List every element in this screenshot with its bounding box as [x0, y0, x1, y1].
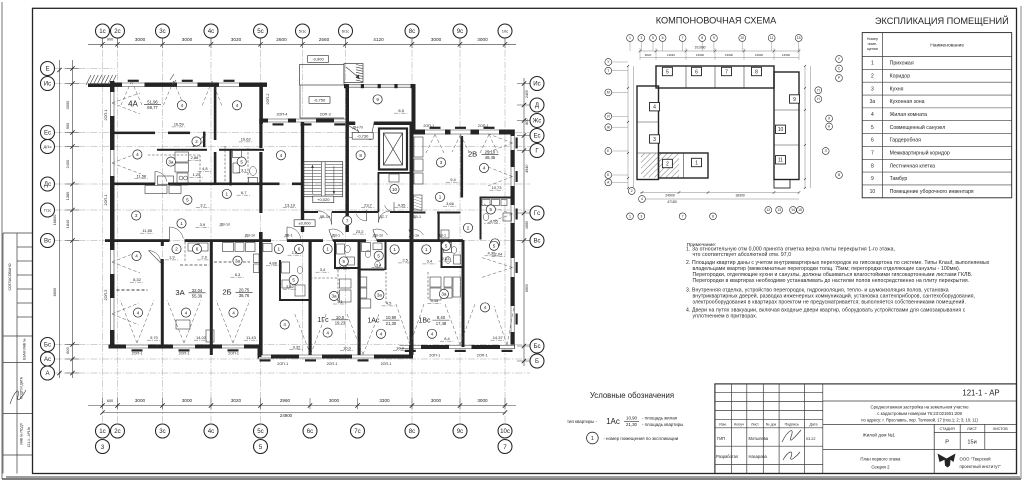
svg-text:3,9: 3,9	[200, 222, 206, 227]
svg-text:21,30: 21,30	[386, 321, 397, 326]
dashed partition rooms 4/4 left	[117, 289, 148, 291]
svg-text:6/1с: 6/1с	[342, 28, 350, 33]
svg-text:10,90: 10,90	[626, 416, 638, 421]
svg-text:800: 800	[525, 119, 529, 125]
svg-text:2,88: 2,88	[191, 155, 200, 160]
corridor bottom wall y240	[105, 239, 170, 242]
dashed partition 3А hall	[180, 264, 209, 266]
svg-text:4: 4	[431, 331, 434, 336]
svg-text:3000: 3000	[431, 398, 442, 403]
svg-text:10: 10	[870, 189, 876, 195]
tambour bottom wall y123	[349, 122, 412, 126]
svg-text:1: 1	[278, 247, 281, 252]
key plan axis bubbles right	[836, 56, 843, 63]
bottom axis bubbles row 2	[96, 440, 110, 454]
svg-text:Перегородки, отделяющие кухни: Перегородки, отделяющие кухни и санузлы,…	[693, 271, 973, 278]
door openings: arcs	[170, 227, 184, 239]
svg-text:3а: 3а	[377, 293, 383, 298]
svg-text:Секция 2: Секция 2	[871, 464, 890, 469]
kitchen/bath cluster walls 4А	[157, 149, 207, 151]
svg-text:1: 1	[326, 247, 329, 252]
legend room number	[587, 432, 599, 444]
svg-text:8с: 8с	[409, 28, 415, 35]
svg-text:10: 10	[392, 187, 398, 192]
svg-text:16,59: 16,59	[174, 122, 185, 127]
svg-text:8: 8	[755, 69, 758, 75]
svg-text:№ док: № док	[766, 422, 777, 426]
svg-text:КОМПОНОВОЧНАЯ СХЕМА: КОМПОНОВОЧНАЯ СХЕМА	[656, 16, 777, 26]
svg-text:5: 5	[240, 159, 243, 164]
svg-text:Т: Т	[607, 69, 609, 73]
exterior wall: stairwell top y120	[259, 119, 347, 123]
svg-text:Подпись: Подпись	[785, 422, 799, 426]
svg-text:16300: 16300	[725, 53, 733, 57]
svg-text:5: 5	[490, 207, 493, 212]
svg-text:3,66: 3,66	[446, 201, 455, 206]
svg-text:21,30: 21,30	[626, 422, 638, 427]
svg-text:16400: 16400	[782, 53, 790, 57]
svg-text:20,75: 20,75	[239, 287, 250, 292]
svg-text:2ОП-1: 2ОП-1	[327, 362, 338, 366]
svg-text:6,3: 6,3	[235, 272, 241, 277]
svg-text:900: 900	[107, 38, 113, 42]
svg-text:1,2: 1,2	[292, 250, 298, 255]
svg-text:55,39: 55,39	[192, 294, 203, 299]
svg-text:4,35: 4,35	[398, 202, 407, 207]
svg-text:3: 3	[640, 215, 642, 219]
2Б kitchen fixtures	[223, 243, 234, 252]
svg-text:ООО "Тверской: ООО "Тверской	[960, 456, 992, 461]
svg-text:10,9: 10,9	[396, 346, 405, 351]
svg-text:3а: 3а	[168, 159, 174, 164]
svg-text:8: 8	[359, 153, 362, 158]
svg-text:4: 4	[484, 305, 487, 310]
svg-text:1660: 1660	[525, 221, 529, 229]
svg-text:3: 3	[871, 86, 874, 92]
svg-text:3: 3	[440, 160, 443, 165]
svg-text:16800: 16800	[52, 214, 57, 226]
svg-text:14,37: 14,37	[493, 335, 504, 340]
svg-text:4: 4	[326, 330, 329, 335]
room number circles	[177, 101, 186, 110]
svg-text:2: 2	[666, 161, 669, 167]
svg-text:2ОП-3: 2ОП-3	[320, 113, 331, 117]
svg-text:4: 4	[232, 310, 235, 315]
svg-text:4: 4	[280, 153, 283, 158]
svg-text:7с: 7с	[354, 428, 360, 435]
svg-text:3а: 3а	[331, 294, 337, 299]
svg-text:2400: 2400	[525, 90, 529, 98]
svg-text:1Вс: 1Вс	[418, 317, 431, 324]
key plan dimension lines	[640, 50, 799, 52]
1Вс bathroom (right side)	[441, 242, 443, 268]
svg-text:4: 4	[871, 112, 874, 118]
svg-text:ДВ-1: ДВ-1	[284, 234, 292, 238]
svg-text:4с: 4с	[208, 428, 214, 435]
svg-text:11: 11	[778, 158, 783, 164]
svg-text:6,7: 6,7	[241, 190, 247, 195]
svg-text:ДВ-1л: ДВ-1л	[220, 223, 230, 227]
svg-text:2ОП-1: 2ОП-1	[277, 362, 288, 366]
svg-text:2ОП-1: 2ОП-1	[429, 354, 440, 358]
svg-text:1380: 1380	[65, 191, 70, 200]
1Вс kitchen fixtures	[430, 277, 441, 287]
top dimension chain	[88, 43, 516, 45]
1Гс bathroom top-right	[334, 242, 336, 269]
title block frame	[715, 384, 1017, 474]
2В partition rooms 3/4	[461, 136, 464, 198]
svg-text:с кадастровым номером 76:23:02: с кадастровым номером 76:23:021501:208	[877, 411, 962, 416]
svg-text:3а: 3а	[235, 258, 241, 263]
svg-text:5: 5	[666, 69, 669, 75]
svg-text:24900: 24900	[280, 413, 293, 418]
svg-text:32,04: 32,04	[192, 288, 203, 293]
svg-text:600: 600	[65, 346, 70, 353]
svg-text:3020: 3020	[231, 37, 242, 42]
svg-text:1: 1	[425, 247, 428, 252]
svg-text:8,40: 8,40	[437, 315, 446, 320]
svg-text:2ОП-1: 2ОП-1	[381, 362, 392, 366]
svg-text:69,77: 69,77	[147, 105, 158, 110]
svg-text:ДВ-1: ДВ-1	[332, 234, 340, 238]
svg-text:СОГЛАСОВАНО: СОГЛАСОВАНО	[8, 263, 12, 290]
svg-text:Условные обозначения: Условные обозначения	[590, 391, 674, 400]
svg-text:6с: 6с	[307, 428, 313, 435]
svg-text:ГИП: ГИП	[717, 436, 725, 441]
top axis bubbles	[96, 24, 110, 38]
svg-text:2600: 2600	[276, 37, 287, 42]
svg-text:5: 5	[377, 253, 380, 258]
2В pantry hatch	[414, 196, 423, 199]
svg-text:3000: 3000	[135, 37, 146, 42]
signatures	[782, 430, 801, 442]
svg-text:8: 8	[712, 215, 714, 219]
svg-text:Кухонная зона: Кухонная зона	[890, 99, 925, 105]
4А vertical partition x215	[214, 84, 217, 140]
svg-text:Ис: Ис	[44, 81, 51, 88]
svg-text:16300: 16300	[755, 53, 763, 57]
svg-text:5с: 5с	[257, 428, 263, 435]
svg-text:18300: 18300	[735, 194, 745, 198]
interior bearing wall axis 6с	[309, 240, 312, 355]
svg-text:Помещение уборочного инвентаря: Помещение уборочного инвентаря	[890, 189, 974, 195]
unit 5с-6с bathroom (right side)	[279, 260, 281, 301]
svg-text:3а: 3а	[441, 292, 447, 297]
svg-text:3,95: 3,95	[490, 219, 499, 224]
svg-text:15и: 15и	[967, 440, 976, 446]
svg-text:25,10: 25,10	[485, 149, 496, 154]
svg-text:3,7: 3,7	[200, 203, 206, 208]
svg-text:10,0: 10,0	[343, 345, 352, 350]
svg-text:проектный институт": проектный институт"	[960, 464, 1002, 469]
svg-text:Бс: Бс	[44, 342, 51, 349]
short wall below h1	[203, 132, 205, 148]
key plan building outline	[656, 66, 774, 88]
svg-text:11,85: 11,85	[142, 228, 152, 233]
svg-text:-0,730: -0,730	[357, 133, 369, 138]
svg-text:23,7: 23,7	[364, 202, 373, 207]
svg-text:Гс: Гс	[534, 210, 540, 217]
svg-text:38,76: 38,76	[239, 293, 250, 298]
svg-text:Лист: Лист	[751, 422, 759, 426]
svg-text:8,4: 8,4	[444, 336, 450, 341]
notch wall continuation x259	[259, 123, 262, 149]
svg-text:Ас: Ас	[44, 356, 51, 363]
svg-text:7: 7	[725, 69, 728, 75]
svg-text:12: 12	[766, 208, 770, 212]
svg-text:ИНВ № ПОДЛ: ИНВ № ПОДЛ	[20, 423, 24, 445]
svg-text:внутриквартирных дверей, разво: внутриквартирных дверей, разводка инжене…	[693, 293, 976, 300]
svg-text:7: 7	[871, 151, 874, 157]
svg-text:Ис: Ис	[533, 81, 540, 88]
svg-text:Разработал: Разработал	[716, 454, 739, 459]
svg-text:3000: 3000	[182, 37, 193, 42]
svg-text:3,1: 3,1	[337, 299, 343, 304]
title block left grid	[731, 384, 733, 474]
svg-text:47180: 47180	[667, 200, 677, 204]
interior bearing wall axis 5с	[259, 232, 263, 355]
svg-text:6: 6	[871, 138, 874, 144]
svg-text:19,23: 19,23	[335, 321, 346, 326]
exterior wall: bottom left section	[109, 345, 262, 349]
svg-text:6: 6	[695, 69, 698, 75]
svg-text:4,88: 4,88	[269, 261, 278, 266]
svg-text:3: 3	[101, 444, 105, 451]
svg-text:К: К	[828, 125, 830, 129]
svg-text:2ОП-4: 2ОП-4	[276, 113, 287, 117]
svg-text:Жилая комната: Жилая комната	[890, 112, 928, 118]
svg-text:Дата: Дата	[810, 422, 818, 426]
3А fixtures	[188, 243, 198, 251]
svg-text:9: 9	[713, 36, 715, 40]
svg-text:51,96: 51,96	[147, 99, 158, 104]
svg-text:3А: 3А	[175, 288, 185, 297]
svg-text:1Гс: 1Гс	[317, 317, 329, 324]
svg-text:ДН-7л: ДН-7л	[353, 126, 364, 130]
svg-text:9: 9	[793, 97, 796, 103]
svg-text:ЛИСТОВ: ЛИСТОВ	[993, 427, 1009, 431]
svg-text:1: 1	[629, 36, 631, 40]
interior bearing wall axis 4с	[210, 240, 213, 355]
svg-text:5: 5	[259, 444, 263, 451]
svg-text:ЛИСТ: ЛИСТ	[967, 427, 978, 431]
svg-text:2ОП-2: 2ОП-2	[266, 94, 270, 105]
svg-text:3000: 3000	[477, 398, 488, 403]
svg-text:Коридор: Коридор	[890, 73, 911, 79]
svg-text:5: 5	[871, 125, 874, 131]
svg-text:ЭКСПЛИКАЦИЯ ПОМЕЩЕНИЙ: ЭКСПЛИКАЦИЯ ПОМЕЩЕНИЙ	[875, 15, 1009, 26]
left dimension chain	[72, 60, 74, 378]
svg-text:5: 5	[292, 278, 295, 283]
dashed closet line near 10,62	[247, 148, 249, 182]
svg-text:- площадь квартиры: - площадь квартиры	[642, 422, 683, 427]
svg-text:2,73: 2,73	[339, 265, 348, 270]
svg-text:11: 11	[770, 36, 774, 40]
svg-text:2ОП-1: 2ОП-1	[477, 354, 488, 358]
svg-text:Среднеэтажная застройка на зем: Среднеэтажная застройка на земельном уча…	[871, 405, 970, 410]
svg-text:Бс: Бс	[533, 343, 540, 350]
svg-text:Колуч: Колуч	[734, 422, 744, 426]
explication table	[862, 33, 1012, 198]
svg-text:1: 1	[591, 436, 594, 442]
dashed window diagonals	[120, 300, 137, 343]
svg-text:2с: 2с	[114, 28, 120, 35]
svg-text:10,0: 10,0	[336, 315, 345, 320]
stairwell middle wall axis 6/1с	[346, 125, 349, 232]
svg-text:Лестничная клетка: Лестничная клетка	[890, 163, 936, 169]
svg-text:ДВ-1п: ДВ-1п	[245, 234, 255, 238]
svg-text:Мотылева: Мотылева	[749, 436, 769, 441]
svg-text:1: 1	[629, 215, 631, 219]
svg-text:5: 5	[186, 197, 189, 202]
exterior wall: 2В top y130	[412, 130, 515, 135]
tambour top wall: glazed front with piers	[344, 84, 414, 86]
svg-text:ВЗАМ ИНВ №: ВЗАМ ИНВ №	[23, 338, 27, 360]
key plan axis bubbles bottom	[628, 188, 635, 195]
svg-text:4А: 4А	[128, 100, 138, 109]
svg-text:ДВ-1н: ДВ-1н	[409, 234, 419, 238]
svg-text:Г/1с: Г/1с	[44, 207, 51, 212]
svg-text:Назарова: Назарова	[749, 454, 768, 459]
svg-text:3000: 3000	[431, 37, 442, 42]
svg-text:4: 4	[380, 331, 383, 336]
svg-text:1: 1	[871, 61, 874, 67]
dashed partitions 4А kitchen	[148, 154, 200, 156]
svg-text:9: 9	[871, 176, 874, 182]
sidebar signature	[10, 390, 26, 404]
svg-text:14: 14	[791, 208, 795, 212]
svg-text:4120: 4120	[373, 37, 384, 42]
svg-text:9,32: 9,32	[293, 345, 302, 350]
exterior wall: bottom right section	[409, 345, 515, 349]
bottom axis bubbles row 1	[96, 424, 110, 438]
svg-text:14640: 14640	[667, 53, 675, 57]
svg-text:1: 1	[393, 247, 396, 252]
entrance platform	[300, 65, 345, 86]
svg-text:электрооборудования в квартира: электрооборудования в квартирах проектом…	[693, 299, 966, 306]
svg-text:5/1с: 5/1с	[299, 28, 307, 33]
svg-text:23,2: 23,2	[356, 229, 365, 234]
svg-text:1с: 1с	[99, 28, 105, 35]
key plan axis bubbles top	[627, 35, 634, 42]
svg-text:2ОП-1: 2ОП-1	[104, 195, 108, 206]
svg-text:Гардеробная: Гардеробная	[890, 138, 922, 144]
svg-text:1с: 1с	[99, 428, 105, 435]
svg-text:4: 4	[135, 254, 138, 259]
svg-text:7: 7	[346, 218, 349, 223]
svg-text:3с: 3с	[159, 428, 165, 435]
svg-text:5: 5	[343, 259, 346, 264]
svg-text:8,5: 8,5	[398, 108, 404, 113]
tambour right wall	[412, 84, 416, 130]
svg-text:3000: 3000	[65, 100, 70, 109]
svg-text:щения: щения	[867, 47, 878, 51]
key plan numbered boxes	[662, 67, 672, 75]
svg-text:±0,000: ±0,000	[298, 221, 311, 226]
interior wall 1Вс right	[462, 240, 465, 347]
svg-text:9с: 9с	[457, 428, 463, 435]
svg-text:6: 6	[298, 247, 301, 252]
1Ас bathroom (left side)	[385, 242, 387, 270]
svg-text:ДС-7: ДС-7	[379, 215, 387, 219]
svg-text:9с: 9с	[457, 28, 463, 35]
svg-text:1,25: 1,25	[193, 172, 202, 177]
svg-text:3000: 3000	[182, 398, 193, 403]
svg-text:8,32: 8,32	[133, 277, 142, 282]
svg-text:1840: 1840	[65, 219, 70, 228]
svg-text:Жилой дом №1: Жилой дом №1	[863, 431, 896, 437]
svg-text:3020: 3020	[231, 398, 242, 403]
kitchen and bathroom fixtures 4А	[175, 152, 189, 162]
2В bathroom fixtures	[482, 200, 490, 206]
svg-text:2: 2	[631, 189, 633, 193]
svg-text:Е: Е	[45, 66, 49, 73]
svg-text:4: 4	[181, 103, 184, 108]
exterior wall: top left (axis Ис)	[110, 83, 267, 87]
svg-text:3000: 3000	[477, 37, 488, 42]
interior bearing wall axis 3с	[161, 241, 164, 246]
svg-text:План первого этажа: План первого этажа	[860, 457, 901, 462]
svg-text:600: 600	[107, 399, 113, 403]
left sidebar stamp	[3, 232, 33, 234]
svg-text:3,4: 3,4	[376, 262, 382, 267]
2В kitchen fixtures top	[414, 137, 423, 157]
svg-text:3,4: 3,4	[320, 267, 326, 272]
svg-text:ДВ-1л: ДВ-1л	[373, 234, 383, 238]
key plan axis bubbles left	[605, 59, 612, 66]
svg-text:Вс: Вс	[533, 238, 540, 245]
svg-text:5: 5	[652, 36, 654, 40]
svg-text:что соответствует абсолютной о: что соответствует абсолютной отм. 97,0	[693, 251, 792, 258]
svg-text:2В: 2В	[468, 150, 477, 159]
1Ас kitchen fixtures	[359, 277, 367, 287]
interior bearing wall axis 7с	[358, 240, 361, 355]
fixtures bathroom 4А lower	[206, 330, 214, 342]
svg-text:СТАДИЯ: СТАДИЯ	[940, 427, 955, 431]
interior bearing wall axis 8с / 2В left	[410, 125, 414, 355]
4А horizontal wall y183	[110, 183, 155, 186]
svg-text:2ОП-1: 2ОП-1	[132, 352, 143, 356]
svg-text:9: 9	[376, 97, 379, 102]
room 10 walls	[378, 172, 380, 212]
svg-text:4,8: 4,8	[202, 166, 208, 171]
svg-text:2Б: 2Б	[222, 288, 231, 297]
svg-text:13: 13	[777, 208, 781, 212]
left axis bubbles	[41, 62, 55, 76]
svg-text:101980: 101980	[694, 46, 705, 50]
svg-text:3: 3	[640, 36, 642, 40]
svg-text:Изм.: Изм.	[719, 422, 727, 426]
entrance ramp	[344, 64, 363, 83]
svg-text:Прихожая: Прихожая	[890, 61, 914, 67]
logo	[938, 454, 956, 468]
svg-text:уплотнением в притворах.: уплотнением в притворах.	[693, 314, 758, 320]
svg-text:2,04: 2,04	[495, 251, 504, 256]
svg-text:15: 15	[798, 208, 802, 212]
svg-text:Р: Р	[945, 440, 949, 446]
svg-text:10: 10	[740, 36, 744, 40]
svg-text:7: 7	[682, 215, 684, 219]
svg-text:3000: 3000	[329, 398, 340, 403]
svg-text:2: 2	[195, 139, 198, 144]
svg-text:Б: Б	[535, 358, 539, 365]
svg-text:2: 2	[467, 225, 470, 230]
right dimension chain	[523, 78, 525, 366]
svg-text:03.22: 03.22	[806, 437, 816, 441]
svg-text:2960: 2960	[280, 398, 291, 403]
stairwell left wall axis 5/1с	[301, 122, 304, 232]
svg-text:Д/1с: Д/1с	[44, 144, 52, 149]
